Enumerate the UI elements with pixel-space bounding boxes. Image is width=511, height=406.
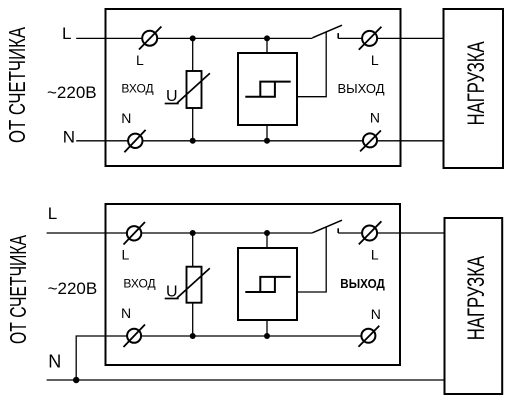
junction dot N riser (bottom) [73,377,79,383]
svg-text:N: N [371,306,381,322]
varistor RU (top) body [187,71,202,108]
terminal output L (bottom) circle [362,226,377,241]
terminal input L (top) slash [139,27,161,50]
varistor RU (bottom) body [187,267,202,303]
svg-text:L: L [371,52,379,68]
junction dot relay-L (bottom) [264,230,270,236]
relay control unit box U1 (top) [238,53,297,125]
svg-text:ВЫХОД: ВЫХОД [338,81,385,96]
wire L output (bottom, switch contact to load) [338,232,444,234]
device box (voltage relay enclosure) bottom [106,204,401,365]
wire L input (bottom, from meter to switch pivot) [47,232,313,234]
varistor RU (bottom) diagonal stroke [177,268,210,298]
svg-text:L: L [122,247,130,263]
junction dot relay-N (bottom) [264,333,270,339]
svg-text:НАГРУЗКА: НАГРУЗКА [463,256,490,341]
svg-text:НАГРУЗКА: НАГРУЗКА [463,41,490,125]
terminal output N (top) circle [363,133,377,147]
varistor RU (top) U-foot underline [165,103,179,105]
hysteresis symbol (bottom relay) [245,277,290,292]
svg-text:L: L [371,247,379,263]
svg-text:ВЫХОД: ВЫХОД [340,276,385,291]
svg-text:L: L [136,52,144,68]
wire N (from meter through device to load) [76,140,443,142]
junction dot relay-N (top) [264,138,270,144]
terminal input L (bottom) circle [127,226,141,240]
wire L input (from meter to switch pivot) [76,37,312,39]
terminal output L (top) slash [359,27,382,50]
svg-text:ВХОД: ВХОД [123,276,155,290]
wire varistor branch vertical (bottom) [192,233,194,336]
hysteresis symbol (top relay) [245,82,290,97]
wire relay coil branch vertical bottom (bottom diagram) [266,320,268,336]
control line from relay to switch (bottom) [297,227,326,292]
svg-text:ВХОД: ВХОД [121,82,153,96]
wire varistor branch vertical [192,38,194,140]
svg-text:ОТ СЧЕТЧИКА: ОТ СЧЕТЧИКА [4,27,30,143]
terminal output N (bottom) circle [361,329,375,343]
terminal input N (bottom) circle [127,329,141,343]
terminal input L (bottom) slash [124,222,146,245]
junction dot varistor-L (top) [190,35,196,41]
wire relay coil branch vertical top [266,38,268,53]
junction dot varistor-N (top) [190,138,196,144]
svg-text:~220В: ~220В [47,83,97,102]
svg-text:~220В: ~220В [48,279,98,298]
switch K2 fixed contact tick (bottom) [337,228,339,233]
svg-text:N: N [121,305,131,321]
wire relay coil branch vertical bottom [266,125,268,141]
load box НАГРУЗКА top [444,9,504,168]
varistor RU (top) diagonal stroke [177,73,210,103]
svg-text:N: N [121,110,131,126]
load box НАГРУЗКА bottom [445,218,503,394]
varistor RU (bottom) U-foot underline [165,298,179,300]
wire L output (switch contact to load) [338,37,443,39]
junction dot relay-L (top) [264,35,270,41]
device box (voltage relay enclosure) top [106,9,401,166]
terminal output L (top) circle [362,31,377,46]
switch K2 blade (bottom) [312,220,342,233]
terminal input L (top) circle [142,31,157,46]
switch K1 blade (top) [312,25,342,38]
relay control unit box U2 (bottom) [238,248,297,320]
terminal input N (top) slash [124,130,145,152]
terminal output N (top) slash [360,131,381,152]
control line from relay to switch (top) [297,32,326,97]
wire N riser to device (bottom) [76,336,368,380]
svg-text:U: U [166,283,178,300]
svg-text:N: N [370,110,380,126]
terminal output L (bottom) slash [359,221,382,244]
junction dot varistor-L (bottom) [190,230,196,236]
terminal input N (top) circle [128,134,142,148]
switch K1 fixed contact tick (top) [337,33,339,38]
svg-text:L: L [62,24,71,43]
junction dot varistor-N (bottom) [190,333,196,339]
svg-text:ОТ СЧЕТЧИКА: ОТ СЧЕТЧИКА [5,235,31,344]
wire relay coil branch vertical top (bottom diagram) [266,233,268,248]
terminal output N (bottom) slash [359,326,380,347]
wire N external (bottom, from meter to load) [47,379,445,381]
svg-text:U: U [166,88,178,105]
svg-text:L: L [48,204,57,223]
terminal input N (bottom) slash [124,325,146,348]
svg-text:N: N [63,127,75,146]
svg-text:N: N [48,352,61,372]
